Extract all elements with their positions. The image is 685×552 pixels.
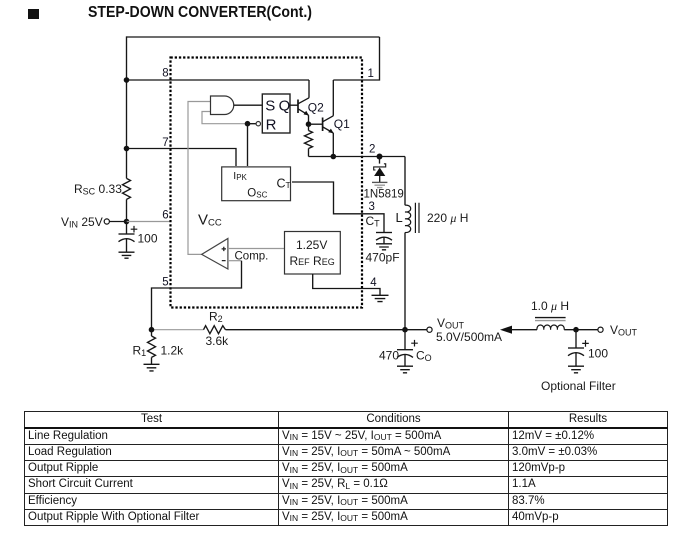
terminal VOUT [427,327,432,332]
label pin 7 [162,137,168,149]
svg-text:R2: R2 [209,310,223,325]
label 1.2k [161,344,185,358]
svg-text:1: 1 [368,68,374,80]
node Q2 emitter junction [306,121,312,127]
svg-text:Q: Q [279,97,291,114]
svg-text:S: S [265,98,275,115]
label CO [416,349,432,364]
inductor filter core lines [535,318,566,321]
node feedback junction [149,327,155,333]
node R input junction [245,121,251,127]
wire AND lower input loop (gray) [202,112,245,124]
svg-text:IPK: IPK [233,170,247,182]
label 100 [138,232,158,246]
inductor 1.0uH filter [537,325,564,330]
svg-text:Q2: Q2 [308,101,324,115]
wire Q2 emitter down [308,115,310,124]
node pin6 junction [124,219,130,225]
svg-text:CO: CO [416,349,432,364]
capacitor CO [397,330,418,366]
svg-text:2: 2 [369,144,375,156]
wire comparator plus input to ref (gray) [228,248,285,250]
IC dashed box [171,58,363,308]
svg-text:5: 5 [162,277,168,289]
svg-text:1.25V: 1.25V [296,238,327,252]
label R [266,116,277,133]
ground R1 [144,364,160,371]
wire AND output to S [234,104,262,106]
svg-text:3: 3 [369,201,375,213]
ground diode [372,182,387,187]
label VIN 25V [61,215,103,230]
label pin 5 [162,277,168,289]
label 470 [379,349,399,363]
label pin 2 [369,144,375,156]
label REF REG [290,254,335,268]
svg-text:REF REG: REF REG [290,254,335,268]
svg-text:3.6k: 3.6k [206,334,230,348]
svg-text:1.0 μ H: 1.0 μ H [531,299,569,313]
svg-text:Q1: Q1 [334,117,350,131]
node pin2 junction [377,154,383,160]
wire comparator minus input (gray stub) [228,260,242,262]
label CT pin3 [366,214,381,229]
label OSC [247,188,267,200]
svg-text:R1: R1 [133,344,147,359]
node output junction [402,327,408,333]
label pin 8 [162,68,168,80]
capacitor 470pF [376,233,392,244]
wire Q1 emitter down [332,133,334,157]
wire filter out [564,329,598,331]
svg-text:100: 100 [588,347,608,361]
label VOUT filter [610,323,638,338]
arrow to filter [500,326,537,334]
label 1N5819 [364,189,404,201]
regulator box 1.25V REF REG [285,232,341,275]
label 220uH [427,211,468,225]
comparator [202,239,228,270]
svg-text:7: 7 [162,137,168,149]
oscillator box Osc [222,167,291,201]
svg-text:VCC: VCC [198,212,222,229]
wire bottom rail R2 [152,329,406,331]
svg-text:VOUT: VOUT [437,316,465,331]
results table [24,411,668,526]
svg-text:220 μ H: 220 μ H [427,211,468,225]
svg-text:5.0V/500mA: 5.0V/500mA [436,330,502,344]
wire pin 4 [313,274,380,295]
svg-text:L: L [396,210,403,225]
label Q [279,97,291,114]
ground VIN cap [119,252,135,258]
label pin 6 [162,210,168,222]
svg-text:CT: CT [366,214,381,229]
R input bubble [256,122,260,126]
label 1.0uH [531,299,569,313]
wire CT to pin 3 [292,182,384,232]
svg-text:1N5819: 1N5819 [364,189,404,201]
label R1 [133,344,147,359]
label Q1 [334,117,350,131]
label IPK [233,170,247,182]
svg-text:OSC: OSC [247,188,267,200]
resistor R2 [204,326,226,334]
resistor internal [305,124,313,156]
label 1.25V [296,238,327,252]
wire Q1 collector to pin1 (gray) [332,80,334,116]
wire to VOUT terminal [405,329,427,331]
svg-text:Optional Filter: Optional Filter [541,379,616,393]
wire junction to Q1 base [309,123,323,125]
label 3.6k [206,334,230,348]
ground CO [397,366,413,373]
label S [265,98,275,115]
latch box SR [262,94,290,133]
wire Q to Q2 base [290,104,298,106]
label L [396,210,403,225]
section header bullet [28,9,39,19]
wire R junction to bubble [245,123,256,125]
wire pin 7 to Ipk [127,149,237,167]
svg-text:VIN 25V: VIN 25V [61,215,103,230]
wire top rail [127,36,380,38]
label 5.0V/500mA [436,330,502,344]
transistor Q1 [323,116,334,134]
label pin 1 [368,68,374,80]
label pin 3 [369,201,375,213]
label 100 filter [588,347,608,361]
ground 470pF [376,244,392,250]
terminal VIN [104,219,109,224]
diode 1N5819 [374,157,386,183]
ground filter cap [568,366,584,373]
terminal VOUT filter [598,327,603,332]
wire R junction to Osc [247,124,249,166]
label Optional Filter [541,379,616,393]
wire pin 1 [333,37,379,80]
node pin8 junction [124,77,130,83]
node pin7 junction [124,146,130,152]
svg-text:CT: CT [277,177,291,191]
resistor RSC [123,178,131,199]
wire left rail [126,36,128,221]
wire pin 2 rail [309,156,406,158]
svg-text:8: 8 [162,68,168,80]
label CT osc [277,177,291,191]
resistor R1 [148,330,156,364]
label R2 [209,310,223,325]
section header title [88,4,312,22]
wire Q2 collector to pin8 (gray) [308,80,310,98]
label Q2 [308,101,324,115]
svg-text:100: 100 [138,232,158,246]
svg-text:470: 470 [379,349,399,363]
svg-text:1.2k: 1.2k [161,344,185,358]
svg-text:VOUT: VOUT [610,323,638,338]
label 470pF [366,251,400,265]
capacitor 100 filter [568,330,589,366]
wire pin 8 [127,79,310,81]
wire output vertical [404,157,406,330]
label RSC 0.33 [74,182,122,197]
node Q1 emitter junction [331,154,337,160]
svg-text:4: 4 [370,277,377,289]
wire pin 5 [152,261,242,330]
wire comparator output to AND gate (gray) [188,102,211,255]
transistor Q2 [298,98,309,116]
ground pin 4 [372,295,389,301]
svg-text:6: 6 [162,210,168,222]
label Comp. [235,251,269,263]
wire pin 6 [109,221,170,223]
capacitor 100 at VIN [119,222,138,253]
svg-text:470pF: 470pF [366,251,400,265]
svg-text:R: R [266,116,277,133]
node filter junction [573,327,579,333]
label pin 4 [370,277,377,289]
and-gate U1 [211,96,234,115]
inductor L [405,205,411,232]
svg-text:RSC 0.33: RSC 0.33 [74,182,122,197]
label VOUT [437,316,465,331]
label VCC [198,212,222,229]
inductor L core lines [415,203,419,233]
